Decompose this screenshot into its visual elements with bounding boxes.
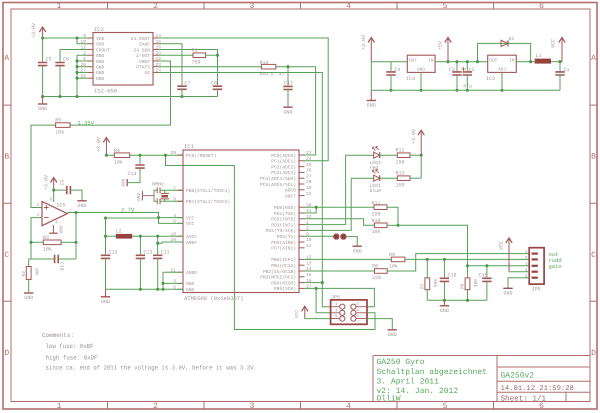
svg-text:C4: C4 xyxy=(395,67,401,73)
svg-text:+3.0V: +3.0V xyxy=(43,175,49,190)
svg-text:11: 11 xyxy=(306,243,312,249)
svg-text:Sheet: 1/1: Sheet: 1/1 xyxy=(501,394,547,403)
led LED2 xyxy=(373,146,380,158)
wire to R11 xyxy=(316,206,374,208)
IC1 right pin numbers xyxy=(306,150,312,289)
svg-text:ADJ: ADJ xyxy=(498,68,506,73)
svg-text:27: 27 xyxy=(306,173,312,179)
junction gnd3 xyxy=(161,282,164,285)
svg-text:blue: blue xyxy=(370,188,382,194)
svg-text:10k: 10k xyxy=(114,160,123,166)
wire PB0-R9 xyxy=(305,258,392,260)
resistor R13 xyxy=(397,176,410,181)
IC5 plus minus marks xyxy=(44,205,49,217)
JP5 pin numbers xyxy=(525,249,528,279)
wire LED2-R12 xyxy=(380,154,398,156)
wire C2 bot xyxy=(466,75,468,90)
wire gain net xyxy=(398,225,468,265)
svg-text:GND: GND xyxy=(388,332,397,338)
svg-text:C14: C14 xyxy=(128,171,137,177)
capacitor C14 xyxy=(135,165,144,168)
wire IC3-L1 xyxy=(516,61,534,63)
IC2 right pin numbers xyxy=(156,33,162,73)
svg-text:23: 23 xyxy=(306,150,312,156)
JP5 signal labels out rudd gain xyxy=(549,251,562,270)
svg-text:GND: GND xyxy=(96,76,105,82)
svg-text:10k: 10k xyxy=(43,247,52,253)
svg-text:GND: GND xyxy=(96,70,105,76)
wire Z-OUT to R1 xyxy=(159,54,194,56)
junction AREF xyxy=(156,242,159,245)
wire C10 left xyxy=(31,258,54,260)
svg-text:C: C xyxy=(4,251,9,260)
ground filter xyxy=(440,300,449,314)
wire to R13 xyxy=(420,155,422,178)
solder jumper SJ1 xyxy=(334,234,340,240)
svg-text:low fuse: 0xBF: low fuse: 0xBF xyxy=(46,343,94,350)
wire VREF down xyxy=(159,61,171,125)
junctions L2 row xyxy=(139,235,159,238)
svg-text:GND: GND xyxy=(283,109,292,115)
svg-text:PB2(SS/OC1B): PB2(SS/OC1B) xyxy=(263,269,296,275)
wire to C5 xyxy=(42,38,44,62)
wire jog R2 xyxy=(29,258,31,260)
svg-text:10k: 10k xyxy=(33,268,39,277)
junction L2 left xyxy=(104,235,107,238)
wire L1-VCC xyxy=(551,61,562,63)
junction C17 xyxy=(286,65,289,68)
svg-text:C6: C6 xyxy=(63,57,69,63)
svg-text:VCC: VCC xyxy=(186,221,195,227)
IC2 left pin numbers xyxy=(80,33,86,79)
svg-text:R4: R4 xyxy=(114,148,120,154)
svg-text:GA250 Gyro: GA250 Gyro xyxy=(377,358,425,367)
wire to C9 xyxy=(54,189,66,191)
wire RXD TXD tie xyxy=(305,207,317,213)
svg-text:L1: L1 xyxy=(536,53,542,59)
crystal caps join xyxy=(154,190,157,201)
svg-text:10: 10 xyxy=(306,237,312,243)
wire C16 bot xyxy=(443,281,445,300)
svg-text:25: 25 xyxy=(306,162,312,168)
svg-text:R1: R1 xyxy=(192,48,198,54)
svg-text:10k: 10k xyxy=(389,264,398,270)
svg-text:5: 5 xyxy=(443,2,448,11)
svg-text:IC1: IC1 xyxy=(184,143,195,150)
wire 24.5GN to R1/C8 xyxy=(159,49,218,85)
svg-text:since ca. end of 2011 the volt: since ca. end of 2011 the voltage is 3.0… xyxy=(46,365,254,372)
wire IC5 vcc xyxy=(53,190,55,202)
svg-text:GND: GND xyxy=(96,53,105,59)
wire R3 right xyxy=(61,241,76,243)
regulator IC3 box xyxy=(488,55,517,72)
svg-text:+5V: +5V xyxy=(438,41,444,50)
capacitor C16 xyxy=(440,278,449,281)
svg-text:JP6: JP6 xyxy=(331,295,340,301)
wire rudd out xyxy=(405,258,529,260)
wire AGND xyxy=(163,272,183,289)
svg-text:PB6(XTAL1/TOSC1): PB6(XTAL1/TOSC1) xyxy=(186,188,230,194)
title text left xyxy=(377,358,487,403)
wire 2.7V filter xyxy=(106,217,159,219)
svg-text:VDD: VDD xyxy=(96,36,105,42)
svg-text:A: A xyxy=(591,54,596,63)
svg-text:PD4(T0/XCK): PD4(T0/XCK) xyxy=(266,228,296,234)
junction D1 left xyxy=(476,60,479,63)
junction VDD xyxy=(75,36,78,39)
wire INT0-R10 xyxy=(305,219,375,226)
junction SCK xyxy=(315,287,318,290)
wire C3 top xyxy=(456,62,458,71)
wire PD5-SJ xyxy=(305,235,334,237)
title block outline xyxy=(373,356,590,402)
wire R2 gnd xyxy=(28,280,30,294)
svg-text:R5: R5 xyxy=(55,118,61,124)
resistor R3 xyxy=(43,240,61,245)
svg-text:AVCC: AVCC xyxy=(186,234,197,240)
svg-text:B: B xyxy=(4,153,9,162)
junction filter left xyxy=(104,216,107,219)
svg-text:ADC7: ADC7 xyxy=(285,193,296,199)
svg-text:Schaltplan abgezeichnet: Schaltplan abgezeichnet xyxy=(377,368,487,377)
svg-text:220: 220 xyxy=(372,211,381,217)
svg-text:4: 4 xyxy=(346,2,351,11)
svg-text:R3: R3 xyxy=(43,235,49,241)
svg-text:C7: C7 xyxy=(185,81,191,87)
junction MISO-AZ xyxy=(321,281,324,284)
svg-text:15: 15 xyxy=(306,272,312,278)
svg-text:24.8OUT: 24.8OUT xyxy=(131,36,151,42)
supply VCC arrow (JP5) xyxy=(498,238,512,272)
svg-text:4: 4 xyxy=(525,267,528,273)
wire 2.7V out xyxy=(67,213,158,218)
ground under C12 xyxy=(101,289,110,305)
svg-text:5: 5 xyxy=(525,273,528,279)
svg-text:GND: GND xyxy=(186,287,195,293)
svg-text:Comments:: Comments: xyxy=(42,332,74,339)
junction +3V node xyxy=(41,36,44,39)
svg-text:PB5(SCK): PB5(SCK) xyxy=(274,286,296,292)
wire VDD19 tie xyxy=(77,38,88,44)
resistor R2 xyxy=(26,267,31,280)
wire C4 top xyxy=(390,62,392,71)
wire R2 top v xyxy=(28,259,30,267)
svg-text:PD5(T1): PD5(T1) xyxy=(277,234,296,240)
svg-text:IC5: IC5 xyxy=(57,203,66,209)
junctions gnd bus xyxy=(41,95,184,98)
svg-text:JP5: JP5 xyxy=(532,287,541,293)
ground at JP5 xyxy=(503,288,512,296)
wire C10 right xyxy=(58,258,76,260)
wire C12 col xyxy=(105,218,107,254)
capacitor C4 xyxy=(386,72,395,75)
comments text block xyxy=(42,332,254,372)
wire VCC to JP6-5 xyxy=(305,317,331,320)
inductor L2 xyxy=(116,234,132,239)
IC1 left pin stubs xyxy=(178,155,184,289)
svg-text:PB7(XTAL2/TOSC2): PB7(XTAL2/TOSC2) xyxy=(186,199,230,205)
wire GND pin stubs to tie xyxy=(77,61,88,78)
svg-text:PB0(ICP1): PB0(ICP1) xyxy=(271,257,296,263)
JP5 pads xyxy=(532,253,538,279)
wire C15 top xyxy=(486,266,488,278)
wire VCC6 xyxy=(159,218,184,224)
junctions GND pins xyxy=(75,59,78,79)
wire PTATS-R14 xyxy=(159,66,262,68)
svg-text:3. April 2011: 3. April 2011 xyxy=(377,377,440,386)
wire 24.8OUT to PC1 xyxy=(159,38,329,161)
junctions filter bus xyxy=(443,299,469,302)
wire R4 left xyxy=(106,154,114,156)
supply +3.0V arrow (LED) xyxy=(411,129,424,155)
capacitor C8 xyxy=(213,86,222,89)
resistor R1 xyxy=(193,53,206,58)
wire R13 right xyxy=(410,177,421,179)
svg-text:PD3(INT1): PD3(INT1) xyxy=(271,222,296,228)
wire L2 right to AVCC xyxy=(132,235,183,237)
ground under R2 xyxy=(24,293,33,301)
svg-text:GND: GND xyxy=(96,59,105,65)
wire GND3 xyxy=(163,282,183,284)
svg-text:R13: R13 xyxy=(396,171,405,177)
wire xtal1 xyxy=(160,189,183,191)
junction 5V xyxy=(446,60,449,63)
svg-text:1: 1 xyxy=(57,2,62,11)
svg-text:4: 4 xyxy=(346,402,351,411)
junction feedback xyxy=(74,211,77,214)
svg-text:6: 6 xyxy=(539,2,544,11)
wire PC0 row xyxy=(0,0,1,1)
ground at crystal rotated xyxy=(137,191,154,201)
svg-text:D: D xyxy=(591,349,596,358)
wire JP5-4 xyxy=(509,271,529,273)
wire MISO xyxy=(305,282,323,284)
JP6 pin numbers xyxy=(335,302,359,319)
svg-text:PD0(RXD): PD0(RXD) xyxy=(274,205,296,211)
wire LED1-R13 xyxy=(380,177,398,179)
svg-text:GND: GND xyxy=(353,248,362,254)
wire R6 bot xyxy=(467,290,469,301)
svg-text:GND: GND xyxy=(101,299,110,305)
svg-text:29: 29 xyxy=(170,150,176,156)
svg-text:Z-OUT: Z-OUT xyxy=(136,53,150,59)
wire reset row xyxy=(130,154,183,156)
connector JP6 box xyxy=(331,300,367,324)
svg-text:IC3: IC3 xyxy=(486,76,495,82)
svg-text:VCC: VCC xyxy=(186,215,195,221)
wire caps to agnd bus xyxy=(106,258,158,289)
wire to C17 xyxy=(287,67,289,86)
junction C1 top xyxy=(558,60,561,63)
wire +3V left down xyxy=(370,62,372,91)
svg-text:7: 7 xyxy=(173,185,176,191)
wire to JP6-3 xyxy=(316,288,331,312)
svg-text:R2: R2 xyxy=(21,271,27,277)
wire -in net xyxy=(31,218,42,259)
frame row labels xyxy=(4,54,596,358)
inductor L1 xyxy=(535,59,551,64)
svg-text:5: 5 xyxy=(443,402,448,411)
svg-text:VCC: VCC xyxy=(498,241,504,250)
svg-text:PD6(AIN0): PD6(AIN0) xyxy=(271,240,296,246)
wire R1 junction xyxy=(206,54,218,56)
svg-text:1: 1 xyxy=(525,249,528,255)
wire IC3 adj xyxy=(501,72,503,90)
svg-text:R7: R7 xyxy=(420,283,426,289)
capacitor C3 xyxy=(452,72,461,75)
svg-text:C8: C8 xyxy=(211,81,217,87)
IC1 right pin stubs xyxy=(299,155,305,288)
supply +3.0V arrow (IC5) xyxy=(43,175,57,190)
capacitor C6 xyxy=(55,63,64,66)
svg-text:ATMEGA8 (0x1e9307): ATMEGA8 (0x1e9307) xyxy=(184,295,243,302)
svg-text:PB4(MISO): PB4(MISO) xyxy=(271,280,296,286)
wire filter bus xyxy=(427,299,487,301)
IC2 left pin names xyxy=(96,36,110,82)
svg-text:+3.0V: +3.0V xyxy=(31,23,37,38)
IC2 right pin names xyxy=(131,36,151,76)
svg-text:C17: C17 xyxy=(284,81,293,87)
svg-text:IN: IN xyxy=(428,59,434,64)
op IC2 box ISZ-650 xyxy=(93,33,153,86)
wire C6-bus xyxy=(59,66,61,97)
svg-text:ADC6: ADC6 xyxy=(285,188,296,194)
junctions rudd filter xyxy=(426,258,446,261)
wire bottom rail xyxy=(371,89,560,91)
svg-text:D1: D1 xyxy=(509,36,515,42)
junction VCC pins xyxy=(157,216,160,219)
wire SCK to JP6-2 xyxy=(305,288,375,306)
svg-text:R12: R12 xyxy=(396,148,405,154)
svg-text:PD1(TXD): PD1(TXD) xyxy=(274,211,296,217)
mcu IC1 box ATMEGA8 xyxy=(183,150,299,293)
svg-text:C10: C10 xyxy=(59,262,65,271)
ground at jumpers xyxy=(353,246,362,254)
supply +5V arrow xyxy=(438,38,452,62)
svg-text:GND: GND xyxy=(186,281,195,287)
wire ZAGC-C7 xyxy=(159,44,183,85)
wire C17-gnd xyxy=(287,90,289,108)
JP6 pads xyxy=(331,304,367,321)
svg-text:AGND: AGND xyxy=(186,270,197,276)
IC1 left pin names xyxy=(186,153,230,293)
resistor R4 xyxy=(114,153,129,158)
resistor R6 xyxy=(465,278,470,290)
svg-text:19: 19 xyxy=(306,185,312,191)
svg-text:PC5(ADC5/SCL): PC5(ADC5/SCL) xyxy=(260,182,296,188)
svg-text:GA250v2: GA250v2 xyxy=(501,372,535,381)
svg-text:C: C xyxy=(591,251,596,260)
resistor R11 xyxy=(374,205,387,210)
svg-text:3: 3 xyxy=(250,2,255,11)
capacitor C15 xyxy=(482,278,491,281)
capacitor C12 xyxy=(101,255,110,258)
C2 plus mark and name xyxy=(462,67,475,73)
svg-text:13: 13 xyxy=(306,260,312,266)
wire C13 col xyxy=(139,236,141,254)
wire C14 to gnd xyxy=(128,168,140,183)
svg-text:2: 2 xyxy=(153,2,158,11)
wire R7 bot xyxy=(426,290,428,301)
svg-text:GND: GND xyxy=(137,193,142,201)
capacitor C17 xyxy=(283,86,292,89)
wire C1 top xyxy=(559,62,561,71)
wire rail +3V xyxy=(371,61,407,63)
svg-text:ZAGC: ZAGC xyxy=(139,42,150,48)
diode D1 bypass xyxy=(478,36,531,62)
wire RESET long route xyxy=(166,155,376,329)
wire gain out xyxy=(468,265,530,267)
svg-text:10k: 10k xyxy=(55,130,64,136)
svg-text:A: A xyxy=(4,54,9,63)
svg-text:IC2: IC2 xyxy=(94,26,104,33)
ground under C5 xyxy=(38,97,47,113)
wire C1 bot xyxy=(559,75,561,90)
ground under C17 xyxy=(283,107,292,115)
wire R12 right xyxy=(410,154,421,156)
wire AZ to JP6 pin1 xyxy=(159,72,331,306)
crystal Q1 body xyxy=(161,190,169,201)
junction C15 xyxy=(485,264,488,267)
op-amp gnd pin xyxy=(49,225,62,234)
junction D1 right xyxy=(529,60,532,63)
junction rxd xyxy=(315,206,318,209)
wire C9 gnd xyxy=(70,190,82,200)
wire R5 to +in xyxy=(31,125,56,207)
resistor R9 xyxy=(391,257,405,262)
svg-text:R8: R8 xyxy=(372,264,378,270)
svg-text:+3.0V: +3.0V xyxy=(96,137,102,152)
frame column ticks top/bottom xyxy=(108,3,494,409)
svg-text:2: 2 xyxy=(153,402,158,411)
wire C11 col xyxy=(157,236,159,254)
svg-text:68k: 68k xyxy=(472,279,478,288)
svg-text:R11: R11 xyxy=(372,200,381,206)
svg-text:750: 750 xyxy=(192,60,201,66)
junctions bottom rail xyxy=(389,89,503,92)
junction C9 xyxy=(52,189,55,192)
svg-text:3: 3 xyxy=(525,261,528,267)
wire xtal2 xyxy=(160,200,183,202)
IC2 left pin stubs xyxy=(88,38,94,78)
wire PD3-LED2 xyxy=(305,155,374,224)
svg-text:PC3(ADC3): PC3(ADC3) xyxy=(271,170,296,176)
svg-text:1.35V: 1.35V xyxy=(78,119,95,126)
svg-text:OUT: OUT xyxy=(409,59,417,64)
svg-text:2.7V: 2.7V xyxy=(121,206,135,213)
ground at C9 xyxy=(77,201,86,209)
wire AREF xyxy=(158,242,183,243)
wire CPOUT-C6 xyxy=(60,49,88,61)
svg-text:C2: C2 xyxy=(469,67,475,73)
svg-text:D: D xyxy=(4,349,9,358)
svg-text:8MHz: 8MHz xyxy=(152,181,164,187)
wire C8-bus xyxy=(217,89,219,96)
svg-text:26: 26 xyxy=(306,168,312,174)
wire JP6-6 gnd xyxy=(367,319,392,330)
connector JP5 box xyxy=(529,248,544,284)
capacitor C5 xyxy=(38,63,47,66)
svg-text:68k: 68k xyxy=(432,279,438,288)
capacitor C2 electrolytic xyxy=(463,72,472,75)
wire C7-bus xyxy=(181,89,183,96)
supply VCC arrow (JP6 pin5) xyxy=(294,306,308,318)
svg-text:GND: GND xyxy=(77,203,86,209)
svg-text:R10: R10 xyxy=(372,218,381,224)
svg-text:220: 220 xyxy=(372,275,381,281)
supply +3.0V arrow (power) xyxy=(361,35,375,62)
IC1 right pin names xyxy=(260,153,296,292)
